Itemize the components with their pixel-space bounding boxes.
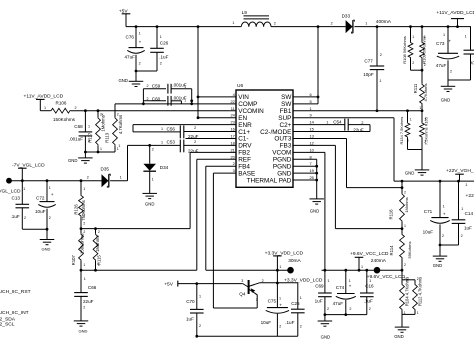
svg-text:+5V: +5V xyxy=(164,281,174,287)
svg-text:C73: C73 xyxy=(436,41,445,46)
svg-text:2: 2 xyxy=(24,216,26,220)
capacitor C17 47uF (edge) xyxy=(470,27,472,51)
svg-text:GND: GND xyxy=(68,158,78,163)
wire FB2 riser xyxy=(189,152,191,228)
ground C71/C14 xyxy=(433,255,448,257)
wire COMP to R113 xyxy=(114,104,116,117)
wire bottom rail xyxy=(197,335,298,337)
svg-text:10uF: 10uF xyxy=(35,209,46,214)
wire +11V rail xyxy=(354,26,471,28)
svg-text:R111: R111 xyxy=(413,83,418,93)
svg-text:.1uF: .1uF xyxy=(11,214,20,219)
svg-text:GND: GND xyxy=(441,98,451,103)
svg-text:2: 2 xyxy=(361,121,363,125)
svg-text:13: 13 xyxy=(310,133,314,138)
transistor Q4 xyxy=(248,280,250,294)
svg-text:2: 2 xyxy=(424,140,426,144)
svg-text:2: 2 xyxy=(424,63,426,67)
svg-text:2: 2 xyxy=(412,61,414,65)
svg-text:1: 1 xyxy=(412,35,414,39)
svg-text:1: 1 xyxy=(443,33,445,37)
svg-text:C53: C53 xyxy=(167,140,176,145)
svg-text:2: 2 xyxy=(147,84,149,88)
svg-text:1: 1 xyxy=(120,175,122,179)
svg-text:1Mohms: 1Mohms xyxy=(95,236,100,252)
resistor R134 7.5Kohms xyxy=(407,111,409,122)
node +9.6V_VCC_LCD off-page xyxy=(374,267,381,274)
resistor R109 56Kohms xyxy=(421,27,423,42)
svg-text:GND: GND xyxy=(405,171,415,176)
svg-text:+: + xyxy=(349,284,352,289)
svg-text:23: 23 xyxy=(230,120,234,125)
svg-text:1uF: 1uF xyxy=(186,317,194,322)
ground C68/R117/R113 xyxy=(78,157,93,159)
wire VCOMIN xyxy=(71,110,236,112)
svg-text:10uF: 10uF xyxy=(261,320,272,325)
svg-text:1: 1 xyxy=(84,277,86,281)
svg-text:1: 1 xyxy=(100,147,102,151)
wire REF riser xyxy=(196,159,198,270)
svg-text:2: 2 xyxy=(98,230,100,234)
svg-text:2: 2 xyxy=(147,97,149,101)
svg-text:R116: R116 xyxy=(388,209,393,220)
svg-text:1: 1 xyxy=(44,106,46,110)
svg-text:C16: C16 xyxy=(365,284,374,289)
svg-text:1: 1 xyxy=(118,144,120,148)
wire COMP xyxy=(115,103,236,105)
wire REF xyxy=(197,158,236,160)
svg-text:R134 7.5Kohms: R134 7.5Kohms xyxy=(399,117,404,145)
wire FB1 xyxy=(293,110,422,112)
svg-text:UCH_IIC_RST: UCH_IIC_RST xyxy=(0,289,31,295)
svg-text:R113: R113 xyxy=(105,132,110,143)
svg-text:.1uF: .1uF xyxy=(364,298,373,303)
svg-text:4.7Kohms: 4.7Kohms xyxy=(118,115,123,134)
svg-text:1: 1 xyxy=(49,186,51,190)
svg-text:1: 1 xyxy=(279,265,281,269)
svg-text:18: 18 xyxy=(230,140,234,145)
wire L9 to D33 xyxy=(271,26,346,28)
wire BASE xyxy=(213,172,236,174)
resistor R107 150Kohms xyxy=(80,229,82,234)
svg-text:1: 1 xyxy=(152,177,154,181)
resistor R114 59Kohms xyxy=(401,229,403,234)
capacitor C70 1uF xyxy=(196,284,198,310)
ground C13/C72 xyxy=(40,239,55,241)
node +5V/C76 xyxy=(135,25,138,28)
svg-text:+9.6V_VCC_LCD: +9.6V_VCC_LCD xyxy=(367,274,406,280)
capacitor C60 .001uF xyxy=(143,100,166,102)
svg-text:UCH_IIC_INT: UCH_IIC_INT xyxy=(0,310,29,316)
capacitor C14 1uF xyxy=(458,181,460,220)
svg-text:150Kohms: 150Kohms xyxy=(53,117,76,122)
svg-text:1: 1 xyxy=(83,187,85,191)
svg-text:21: 21 xyxy=(230,147,234,152)
wire PGND bus xyxy=(293,158,317,160)
svg-text:7: 7 xyxy=(310,161,312,166)
resistor R126 750Kohms xyxy=(80,181,82,195)
wire +3.3V rail (right) xyxy=(206,269,291,271)
svg-text:R126: R126 xyxy=(73,204,78,215)
svg-text:1: 1 xyxy=(199,294,201,298)
wire C59/C60 left xyxy=(142,89,144,104)
svg-text:2: 2 xyxy=(160,61,162,65)
svg-text:1Mohms: 1Mohms xyxy=(404,197,409,212)
svg-text:GND: GND xyxy=(394,334,404,339)
svg-text:3: 3 xyxy=(233,168,235,173)
svg-text:C69: C69 xyxy=(315,283,324,288)
wire FB3 net xyxy=(293,144,335,146)
wire FB2 net xyxy=(81,228,190,230)
svg-text:1: 1 xyxy=(310,106,312,111)
wire FB4 riser xyxy=(205,166,207,270)
capacitor C16 .1uF xyxy=(366,270,368,293)
svg-text:2: 2 xyxy=(404,190,406,194)
svg-text:8: 8 xyxy=(310,154,312,159)
svg-text:+: + xyxy=(139,39,142,44)
svg-text:C2_SCL: C2_SCL xyxy=(0,321,15,327)
resistor R105 7.5Kohms xyxy=(421,111,423,122)
svg-text:+: + xyxy=(51,193,54,198)
node +3.3V_VDD_LCD off-page xyxy=(287,267,294,274)
wire VCOM net xyxy=(293,151,325,153)
svg-text:2: 2 xyxy=(83,221,85,225)
svg-text:240mA: 240mA xyxy=(371,258,387,264)
svg-text:2: 2 xyxy=(327,307,329,311)
svg-text:1: 1 xyxy=(461,207,463,211)
svg-text:C54: C54 xyxy=(333,119,342,124)
svg-text:47uF: 47uF xyxy=(436,63,447,68)
svg-text:2: 2 xyxy=(369,307,371,311)
svg-text:1: 1 xyxy=(232,21,234,25)
wire VGH rail xyxy=(394,180,474,182)
svg-text:1uF: 1uF xyxy=(464,225,472,230)
svg-text:1: 1 xyxy=(184,85,186,89)
svg-text:R109 56Kohms: R109 56Kohms xyxy=(422,36,427,64)
svg-text:4.7Kohms: 4.7Kohms xyxy=(423,83,428,101)
wire SUP riser xyxy=(293,117,394,119)
svg-text:2: 2 xyxy=(139,61,141,65)
wire -7V_VGL rail xyxy=(9,180,102,182)
svg-text:10uF: 10uF xyxy=(423,229,434,234)
wire BASE riser xyxy=(212,173,214,308)
svg-text:1: 1 xyxy=(88,124,90,128)
svg-text:1: 1 xyxy=(404,224,406,228)
svg-text:C75: C75 xyxy=(268,299,277,304)
svg-text:-7V_VGL_LCD: -7V_VGL_LCD xyxy=(12,162,45,168)
svg-text:15: 15 xyxy=(310,127,314,132)
svg-text:2: 2 xyxy=(83,305,85,309)
svg-text:1uF: 1uF xyxy=(315,298,323,303)
svg-text:GND: GND xyxy=(433,263,443,268)
svg-text:C14: C14 xyxy=(465,211,474,216)
svg-text:9: 9 xyxy=(310,113,312,118)
svg-text:1: 1 xyxy=(184,99,186,103)
svg-text:30mA: 30mA xyxy=(288,258,301,264)
svg-text:+22: +22 xyxy=(466,193,474,199)
capacitor C68 .001uF xyxy=(84,111,86,132)
capacitor C59 .001uF xyxy=(143,88,166,90)
capacitor C26 .1uF xyxy=(156,27,158,49)
svg-text:47uF: 47uF xyxy=(333,301,344,306)
wire cap bottoms xyxy=(136,70,157,72)
capacitor C74 47uF xyxy=(345,270,347,293)
svg-text:2: 2 xyxy=(233,161,235,166)
svg-text:R106: R106 xyxy=(56,100,67,105)
svg-text:C56: C56 xyxy=(167,126,176,131)
svg-text:2: 2 xyxy=(404,263,406,267)
svg-text:2: 2 xyxy=(274,21,276,25)
wire +9.6V rail xyxy=(322,269,403,271)
node -7V_VGL_LCD off-page xyxy=(6,178,12,184)
wire EN xyxy=(198,117,236,119)
svg-text:.001uF: .001uF xyxy=(69,137,83,142)
svg-text:GND: GND xyxy=(321,335,331,339)
svg-text:16: 16 xyxy=(230,127,234,132)
svg-text:THERMAL PAD: THERMAL PAD xyxy=(247,177,292,184)
svg-text:C71: C71 xyxy=(424,209,433,214)
wire +3.3V rail (left) xyxy=(81,269,197,271)
svg-text:1: 1 xyxy=(326,121,328,125)
svg-text:1: 1 xyxy=(424,35,426,39)
svg-text:C76: C76 xyxy=(126,35,135,40)
ground C66 xyxy=(74,320,89,322)
svg-text:C60: C60 xyxy=(152,96,161,101)
ground C73 xyxy=(441,85,456,87)
wire R bottoms xyxy=(85,151,115,153)
capacitor C71 10uF xyxy=(439,181,441,218)
ground R134/R105 xyxy=(415,169,430,171)
svg-text:1: 1 xyxy=(23,187,25,191)
svg-text:12: 12 xyxy=(310,140,314,145)
capacitor C66 22uF xyxy=(80,270,82,292)
svg-text:47uF: 47uF xyxy=(470,60,474,65)
svg-text:2: 2 xyxy=(279,325,281,329)
svg-text:2: 2 xyxy=(75,106,77,110)
svg-text:1: 1 xyxy=(465,183,467,187)
wire C1- stub xyxy=(186,137,237,139)
svg-text:GND: GND xyxy=(79,329,88,334)
svg-text:1: 1 xyxy=(361,265,363,269)
wire D35 cathode up xyxy=(127,145,129,180)
svg-text:10pF: 10pF xyxy=(363,72,374,77)
svg-text:2: 2 xyxy=(407,139,409,143)
svg-text:C77: C77 xyxy=(364,59,373,64)
svg-text:22uF: 22uF xyxy=(83,299,94,304)
wire SW riser xyxy=(317,27,319,104)
svg-text:1: 1 xyxy=(98,263,100,267)
svg-text:C25: C25 xyxy=(291,301,300,306)
svg-text:2: 2 xyxy=(49,216,51,220)
svg-text:1: 1 xyxy=(443,204,445,208)
svg-text:2: 2 xyxy=(380,53,382,57)
svg-text:1: 1 xyxy=(419,106,421,110)
svg-text:2: 2 xyxy=(194,140,196,144)
svg-text:1: 1 xyxy=(161,127,163,131)
svg-text:R114: R114 xyxy=(389,245,394,256)
svg-text:1: 1 xyxy=(300,296,302,300)
wire VIN/EN from +5V xyxy=(197,27,199,118)
svg-text:.1uF: .1uF xyxy=(285,320,294,325)
svg-text:GND: GND xyxy=(42,247,51,252)
capacitor C25 .1uF xyxy=(297,283,299,309)
wire C2-/MODE xyxy=(293,131,370,133)
capacitor C69 1uF xyxy=(324,270,326,293)
svg-text:750Kohms: 750Kohms xyxy=(81,200,86,221)
svg-text:.1uF: .1uF xyxy=(159,55,168,60)
svg-text:D34: D34 xyxy=(160,165,169,170)
svg-text:2: 2 xyxy=(331,22,333,26)
svg-text:19: 19 xyxy=(310,168,314,173)
resistor R115 1Mohms xyxy=(95,229,97,234)
svg-text:1: 1 xyxy=(161,140,163,144)
capacitor C13 .1uF xyxy=(21,181,23,205)
svg-text:D35: D35 xyxy=(101,166,110,171)
svg-text:2: 2 xyxy=(199,324,201,328)
resistor R106 150Kohms xyxy=(40,110,50,112)
svg-text:17: 17 xyxy=(230,133,234,138)
svg-text:Q4: Q4 xyxy=(239,291,246,296)
svg-text:GND: GND xyxy=(145,201,155,206)
svg-text:2: 2 xyxy=(194,126,196,130)
svg-text:C26: C26 xyxy=(160,41,169,46)
capacitor C73 47uF xyxy=(447,27,449,54)
svg-text:1: 1 xyxy=(410,117,412,121)
ground R104/R112 xyxy=(395,326,410,328)
capacitor C54 22uF xyxy=(293,124,345,126)
svg-text:GND: GND xyxy=(118,78,128,83)
wire Q4 collector xyxy=(260,282,298,284)
wire SW pin5 xyxy=(293,103,318,105)
svg-text:_VGL_LCD: _VGL_LCD xyxy=(0,188,21,194)
svg-text:C66: C66 xyxy=(88,285,97,290)
svg-text:1: 1 xyxy=(417,311,419,315)
svg-text:2: 2 xyxy=(87,175,89,179)
svg-text:2: 2 xyxy=(83,230,85,234)
svg-text:C72: C72 xyxy=(36,195,45,200)
wire +5V to Q4 base xyxy=(178,283,243,285)
svg-text:1: 1 xyxy=(327,279,329,283)
svg-text:22uF: 22uF xyxy=(353,127,364,132)
svg-text:D33: D33 xyxy=(342,13,351,18)
wire +5V rail xyxy=(126,26,241,28)
wire FB4 xyxy=(206,165,236,167)
svg-text:R107: R107 xyxy=(71,254,76,265)
svg-text:+9.6V_VCC_LCD: +9.6V_VCC_LCD xyxy=(350,251,389,257)
svg-text:R117: R117 xyxy=(88,132,93,143)
wire VIN xyxy=(198,96,236,98)
svg-text:+22V_VGH_L: +22V_VGH_L xyxy=(446,168,474,174)
svg-text:C68: C68 xyxy=(74,124,83,129)
svg-text:1: 1 xyxy=(379,79,381,83)
svg-text:400mA: 400mA xyxy=(376,19,392,25)
svg-text:1: 1 xyxy=(83,263,85,267)
svg-text:1: 1 xyxy=(139,32,141,36)
svg-text:150Kohms: 150Kohms xyxy=(80,234,85,255)
wire OUT3 net xyxy=(293,137,347,139)
diode D34 xyxy=(149,145,151,163)
svg-text:2: 2 xyxy=(349,307,351,311)
wire ENR xyxy=(133,124,236,126)
svg-text:GND: GND xyxy=(310,208,320,213)
svg-text:BASE: BASE xyxy=(238,170,255,177)
svg-text:R112 4.7Kohms: R112 4.7Kohms xyxy=(418,277,423,306)
svg-text:1: 1 xyxy=(365,22,367,26)
svg-text:+11V_AVDD_LCD: +11V_AVDD_LCD xyxy=(24,94,64,100)
ground C69/C74/C16 xyxy=(318,320,333,322)
resistor R108 56Kohms xyxy=(410,27,412,42)
svg-text:U6: U6 xyxy=(237,83,243,89)
svg-text:59Kohms: 59Kohms xyxy=(407,242,412,259)
svg-text:6: 6 xyxy=(310,92,312,97)
svg-text:22: 22 xyxy=(230,99,234,104)
svg-text:+3.3V_VDD_LCD: +3.3V_VDD_LCD xyxy=(265,251,304,257)
resistor R111 4.7Kohms xyxy=(421,70,423,83)
ground D34 xyxy=(142,192,157,194)
svg-text:2: 2 xyxy=(442,234,444,238)
svg-text:1: 1 xyxy=(465,34,467,38)
wire FB2 xyxy=(190,151,236,153)
svg-text:2: 2 xyxy=(117,112,119,116)
svg-text:C13: C13 xyxy=(12,196,21,201)
svg-text:+: + xyxy=(448,39,451,44)
svg-text:11: 11 xyxy=(231,106,235,111)
capacitor C75 10uF xyxy=(267,307,288,309)
svg-text:3: 3 xyxy=(241,279,243,283)
svg-text:GND: GND xyxy=(277,170,292,177)
capacitor C56 22uF xyxy=(133,131,180,133)
resistor R117 1Mohms xyxy=(97,111,99,117)
svg-text:47uF: 47uF xyxy=(125,55,136,60)
svg-text:C74: C74 xyxy=(336,285,345,290)
svg-text:L9: L9 xyxy=(242,10,248,16)
svg-text:1: 1 xyxy=(349,279,351,283)
resistors R104/R112 4.7Kohms xyxy=(401,270,403,280)
svg-text:R108 56Kohms: R108 56Kohms xyxy=(402,36,407,64)
svg-text:C70: C70 xyxy=(186,299,195,304)
svg-text:1: 1 xyxy=(369,279,371,283)
svg-text:R104 4.7Kohms: R104 4.7Kohms xyxy=(405,277,410,306)
capacitor C77 10pF xyxy=(376,27,378,66)
wire BASE to Q4 emitter xyxy=(213,307,257,309)
svg-text:2: 2 xyxy=(450,70,452,74)
svg-text:+: + xyxy=(443,212,446,217)
ground PGND xyxy=(309,198,324,200)
svg-text:1: 1 xyxy=(160,35,162,39)
capacitor C76 47uF xyxy=(135,27,137,48)
svg-text:25: 25 xyxy=(310,175,314,180)
svg-text:2: 2 xyxy=(300,325,302,329)
svg-text:5: 5 xyxy=(310,99,312,104)
svg-text:+: + xyxy=(279,304,282,309)
svg-text:2: 2 xyxy=(461,234,463,238)
svg-text:2: 2 xyxy=(152,148,154,152)
wire SW pin6 xyxy=(293,96,318,98)
svg-text:+11V_AVDD_LCD: +11V_AVDD_LCD xyxy=(436,10,474,16)
svg-text:C59: C59 xyxy=(152,83,161,88)
svg-text:2: 2 xyxy=(100,112,102,116)
ground C76/C26 xyxy=(129,80,144,82)
svg-text:1: 1 xyxy=(279,296,281,300)
capacitor C72 10uF xyxy=(46,181,48,202)
